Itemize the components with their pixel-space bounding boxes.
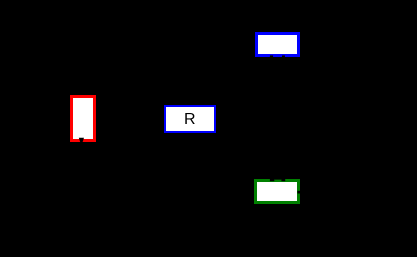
- node R1 (red box): [70, 95, 96, 142]
- node R (blue box with label R): [164, 105, 216, 133]
- wire arrowhead into green box top: [270, 179, 274, 182]
- wire blue box to green box (left): [270, 55, 273, 178]
- wire into green box right edge: [297, 191, 300, 194]
- node G (green box, bottom right): [254, 179, 300, 205]
- wire from red box bottom (arrow stub): [79, 138, 84, 142]
- node B (blue box, top right): [255, 32, 301, 58]
- wire blue box to green box (right): [282, 55, 285, 178]
